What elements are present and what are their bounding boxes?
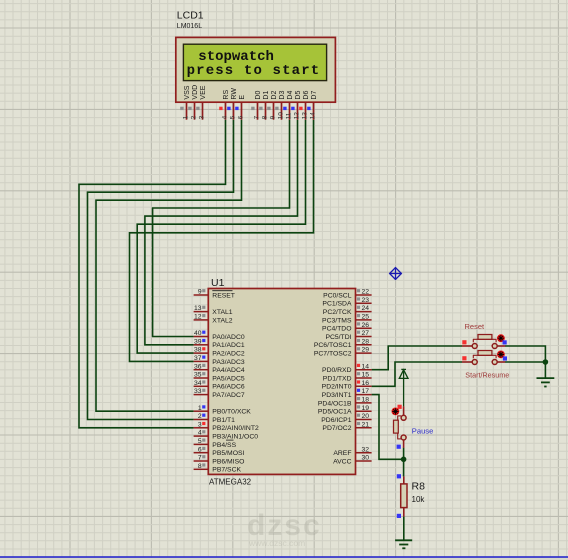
svg-text:PD1/TXD: PD1/TXD <box>323 375 352 382</box>
LCD pin 13 D6 <box>299 91 310 120</box>
Pause pin indicator (red) <box>398 405 402 409</box>
svg-text:VEE: VEE <box>200 85 207 99</box>
svg-text:13: 13 <box>194 305 202 312</box>
svg-text:PC7/TOSC2: PC7/TOSC2 <box>314 351 352 358</box>
wire Pause button to junction <box>403 448 405 460</box>
svg-text:RESET: RESET <box>212 292 235 299</box>
svg-text:28: 28 <box>362 338 370 345</box>
U1 pin 27 PC5/TDI <box>325 330 371 341</box>
svg-text:PA0/ADC0: PA0/ADC0 <box>212 334 245 341</box>
wire LCD RS to PB2 <box>79 120 226 428</box>
svg-text:RW: RW <box>231 88 238 100</box>
svg-text:PA5/ADC5: PA5/ADC5 <box>212 375 245 382</box>
wire PD3 to Pause net <box>372 395 404 460</box>
svg-text:39: 39 <box>194 338 202 345</box>
svg-text:D3: D3 <box>279 91 286 100</box>
svg-text:37: 37 <box>194 355 202 362</box>
svg-text:1: 1 <box>198 405 202 412</box>
wire PD0 to Reset button <box>372 346 462 370</box>
U1 pin 23 PC1/SDA <box>322 297 371 308</box>
svg-text:13: 13 <box>302 112 309 120</box>
svg-text:15: 15 <box>362 372 370 379</box>
R8 pin indicator bottom (blue) <box>397 514 401 518</box>
U1 pin 38 PA2/ADC2 <box>194 347 245 358</box>
svg-text:9: 9 <box>270 115 277 119</box>
svg-text:PB0/T0/XCK: PB0/T0/XCK <box>212 409 251 416</box>
svg-text:PC6/TOSC1: PC6/TOSC1 <box>314 342 352 349</box>
push button RESET <box>462 335 505 349</box>
svg-text:PC3/TMS: PC3/TMS <box>322 317 352 324</box>
svg-text:27: 27 <box>362 330 370 337</box>
U1 pin 20 PD6/ICP1 <box>321 413 371 424</box>
svg-text:RS: RS <box>223 90 230 100</box>
svg-text:6: 6 <box>198 446 202 453</box>
op body U1 ATMEGA32 <box>208 289 355 475</box>
svg-text:PA1/ADC1: PA1/ADC1 <box>212 342 245 349</box>
svg-text:3: 3 <box>199 115 206 119</box>
Start/Resume pin indicator (red) <box>462 356 466 360</box>
wire PD2 to Start/Resume button <box>372 362 462 386</box>
U1 pin 30 AVCC <box>333 455 371 466</box>
svg-text:U1: U1 <box>211 277 225 289</box>
U1 pin 5 PB4/SS <box>194 438 237 449</box>
ground under R8 <box>395 540 412 548</box>
svg-text:10k: 10k <box>412 495 426 504</box>
svg-text:10: 10 <box>278 112 285 120</box>
U1 pin 40 PA0/ADC0 <box>194 330 245 341</box>
Pause interactive actuator icon <box>392 408 400 416</box>
U1 pin 24 PC2/TCK <box>323 305 372 316</box>
svg-text:7: 7 <box>198 455 202 462</box>
svg-text:Pause: Pause <box>412 427 434 436</box>
sheet border line <box>0 556 568 558</box>
svg-text:18: 18 <box>362 397 370 404</box>
svg-text:Reset: Reset <box>465 322 486 331</box>
U1 pin 2 PB1/T1 <box>194 413 236 424</box>
svg-text:D5: D5 <box>295 91 302 100</box>
U1 pin 3 PB2/AIN0/INT2 <box>194 421 259 432</box>
svg-text:PC2/TCK: PC2/TCK <box>323 309 352 316</box>
push button Start/Resume <box>462 351 505 365</box>
svg-text:8: 8 <box>262 115 269 119</box>
svg-text:PB5/MOSI: PB5/MOSI <box>212 450 244 457</box>
svg-text:LCD1: LCD1 <box>177 10 204 22</box>
U1 pin 18 PD4/OC1B <box>318 397 372 408</box>
svg-text:Start/Resume: Start/Resume <box>465 371 509 380</box>
svg-text:PA6/ADC6: PA6/ADC6 <box>212 384 245 391</box>
svg-text:PA2/ADC2: PA2/ADC2 <box>212 351 245 358</box>
svg-text:22: 22 <box>362 289 370 296</box>
svg-text:press to start: press to start <box>187 63 321 79</box>
svg-text:12: 12 <box>294 112 301 120</box>
LCD pin 11 D4 <box>283 91 294 120</box>
svg-text:AVCC: AVCC <box>333 458 351 465</box>
Reset pin indicator (blue) <box>503 340 507 344</box>
svg-text:11: 11 <box>286 112 293 119</box>
svg-text:19: 19 <box>362 405 370 412</box>
push button Pause <box>394 406 407 447</box>
U1 pin 36 PA4/ADC4 <box>194 363 245 374</box>
faint watermark <box>247 509 322 548</box>
wire LCD E to PB0 <box>96 120 242 412</box>
svg-text:4: 4 <box>222 115 229 119</box>
LCD pin 12 D5 <box>291 91 302 120</box>
svg-text:32: 32 <box>362 446 370 453</box>
svg-text:1: 1 <box>183 115 190 119</box>
svg-text:PD6/ICP1: PD6/ICP1 <box>321 417 351 424</box>
svg-text:R8: R8 <box>412 481 426 493</box>
svg-text:PD0/RXD: PD0/RXD <box>322 367 352 374</box>
U1 pin 19 PD5/OC1A <box>318 405 372 416</box>
svg-text:PD2/INT0: PD2/INT0 <box>322 384 352 391</box>
U1 pin 16 PD2/INT0 <box>322 380 372 391</box>
U1 pin 39 PA1/ADC1 <box>194 338 245 349</box>
svg-text:D4: D4 <box>287 91 294 100</box>
svg-text:34: 34 <box>194 380 202 387</box>
svg-text:8: 8 <box>198 463 202 470</box>
svg-text:35: 35 <box>194 372 202 379</box>
svg-text:36: 36 <box>194 363 202 370</box>
svg-text:6: 6 <box>238 115 245 119</box>
svg-text:PD3/INT1: PD3/INT1 <box>322 392 352 399</box>
svg-text:9: 9 <box>198 289 202 296</box>
Start/Resume pin indicator (blue) <box>503 356 507 360</box>
power terminal VCC arrow <box>399 369 408 406</box>
junction node Pause/PD3/R8 <box>401 457 407 463</box>
svg-text:PB2/AIN0/INT2: PB2/AIN0/INT2 <box>212 425 259 432</box>
LCD pin 8 D1 <box>259 91 270 120</box>
svg-text:16: 16 <box>362 380 370 387</box>
svg-text:LM016L: LM016L <box>177 23 202 30</box>
U1 pin 37 PA3/ADC3 <box>194 355 245 366</box>
U1 pin 15 PD1/TXD <box>323 372 372 383</box>
U1 pin 21 PD7/OC2 <box>322 421 371 432</box>
LCD pin 2 VDD <box>188 85 199 120</box>
svg-text:PB4/SS: PB4/SS <box>212 442 236 449</box>
svg-text:2: 2 <box>198 413 202 420</box>
svg-text:PB7/SCK: PB7/SCK <box>212 467 241 474</box>
LCD pin 7 D0 <box>251 91 262 120</box>
svg-text:PB6/MISO: PB6/MISO <box>212 458 244 465</box>
svg-text:www.dzsc.com: www.dzsc.com <box>248 538 305 548</box>
svg-text:14: 14 <box>362 363 370 370</box>
svg-text:E: E <box>239 95 246 100</box>
LCD pin 3 VEE <box>196 85 207 119</box>
svg-text:29: 29 <box>362 347 370 354</box>
U1 pin 7 PB6/MISO <box>194 455 245 466</box>
svg-text:14: 14 <box>310 112 317 120</box>
wire R8 to ground <box>403 517 405 541</box>
svg-text:7: 7 <box>254 115 261 119</box>
LCD LCD1 body <box>176 37 336 102</box>
svg-text:30: 30 <box>362 455 370 462</box>
svg-text:3: 3 <box>198 421 202 428</box>
svg-text:40: 40 <box>194 330 202 337</box>
LCD pin 1 VSS <box>180 85 191 119</box>
svg-text:VSS: VSS <box>184 85 191 99</box>
svg-text:PC0/SCL: PC0/SCL <box>323 292 352 299</box>
wire LCD D5 to PA1 <box>145 120 298 345</box>
Start/Resume interactive actuator icon <box>497 351 505 359</box>
svg-text:23: 23 <box>362 297 370 304</box>
svg-text:D6: D6 <box>303 91 310 100</box>
U1 pin 8 PB7/SCK <box>194 463 242 474</box>
svg-text:PB1/T1: PB1/T1 <box>212 417 235 424</box>
svg-text:PC1/SDA: PC1/SDA <box>322 301 352 308</box>
U1 pin 17 PD3/INT1 <box>322 388 372 399</box>
svg-text:PA3/ADC3: PA3/ADC3 <box>212 359 245 366</box>
LCD pin 5 RW <box>227 88 238 120</box>
svg-text:17: 17 <box>362 388 370 395</box>
svg-text:D0: D0 <box>255 91 262 100</box>
U1 pin 28 PC6/TOSC1 <box>314 338 372 349</box>
U1 pin 26 PC4/TDO <box>322 322 372 333</box>
U1 pin 22 PC0/SCL <box>323 289 371 300</box>
svg-text:ATMEGA32: ATMEGA32 <box>209 477 252 486</box>
svg-text:21: 21 <box>362 421 370 428</box>
U1 pin 13 XTAL1 <box>194 305 233 316</box>
U1 pin 4 PB3/AIN1/OC0 <box>194 430 259 441</box>
svg-text:XTAL2: XTAL2 <box>212 317 232 324</box>
svg-text:5: 5 <box>198 438 202 445</box>
svg-text:D1: D1 <box>263 91 270 100</box>
wire LCD D4 to PA0 <box>153 120 290 337</box>
svg-text:AREF: AREF <box>333 450 351 457</box>
R8 pin indicator top (blue) <box>397 474 401 478</box>
svg-text:PD7/OC2: PD7/OC2 <box>322 425 351 432</box>
wire LCD D6 to PA2 <box>137 120 305 353</box>
LCD pin 14 D7 <box>307 91 318 120</box>
LCD pin 6 E <box>235 95 246 120</box>
svg-text:PD4/OC1B: PD4/OC1B <box>318 400 352 407</box>
LCD screen <box>183 44 326 80</box>
U1 pin 33 PA7/ADC7 <box>194 388 245 399</box>
svg-text:26: 26 <box>362 322 370 329</box>
svg-text:PA7/ADC7: PA7/ADC7 <box>212 392 245 399</box>
Reset pin indicator (red) <box>462 340 466 344</box>
U1 pin 25 PC3/TMS <box>322 314 372 325</box>
U1 pin 9 RESET <box>194 289 235 300</box>
svg-text:PC5/TDI: PC5/TDI <box>325 334 351 341</box>
svg-text:12: 12 <box>194 314 202 321</box>
U1 pin 29 PC7/TOSC2 <box>314 347 372 358</box>
svg-text:20: 20 <box>362 413 370 420</box>
svg-text:25: 25 <box>362 314 370 321</box>
LCD pin 9 D2 <box>267 91 278 120</box>
svg-text:38: 38 <box>194 347 202 354</box>
Pause pin indicator (blue) <box>397 445 401 449</box>
LCD pin 4 RS <box>219 90 230 120</box>
resistor R8 <box>401 476 407 516</box>
U1 pin 14 PD0/RXD <box>322 363 372 374</box>
wire Start/Resume button to ground node <box>505 361 545 363</box>
U1 pin 12 XTAL2 <box>194 314 233 325</box>
U1 pin 34 PA6/ADC6 <box>194 380 245 391</box>
svg-text:PC4/TDO: PC4/TDO <box>322 326 351 333</box>
wire LCD D7 to PA3 <box>130 120 314 362</box>
origin marker <box>389 267 401 279</box>
svg-text:5: 5 <box>230 115 237 119</box>
svg-text:2: 2 <box>191 115 198 119</box>
U1 pin 6 PB5/MOSI <box>194 446 245 457</box>
U1 pin 32 AREF <box>333 446 371 457</box>
svg-text:VDD: VDD <box>192 85 199 100</box>
svg-text:PD5/OC1A: PD5/OC1A <box>318 409 352 416</box>
svg-text:XTAL1: XTAL1 <box>212 309 232 316</box>
U1 pin 35 PA5/ADC5 <box>194 372 245 383</box>
Reset interactive actuator icon <box>497 334 505 342</box>
svg-text:24: 24 <box>362 305 370 312</box>
svg-text:PA4/ADC4: PA4/ADC4 <box>212 367 245 374</box>
junction node buttons-ground <box>543 359 549 365</box>
wire Reset button to ground <box>505 346 545 378</box>
svg-text:D7: D7 <box>311 91 318 100</box>
svg-text:PB3/AIN1/OC0: PB3/AIN1/OC0 <box>212 434 258 441</box>
svg-text:D2: D2 <box>271 91 278 100</box>
LCD pin 10 D3 <box>275 91 286 120</box>
svg-text:4: 4 <box>198 430 202 437</box>
svg-text:33: 33 <box>194 388 202 395</box>
wire junction to R8 <box>403 459 405 476</box>
ground under buttons <box>537 378 555 386</box>
wire LCD RW to PB1 <box>88 120 234 420</box>
U1 pin 1 PB0/T0/XCK <box>194 405 252 416</box>
